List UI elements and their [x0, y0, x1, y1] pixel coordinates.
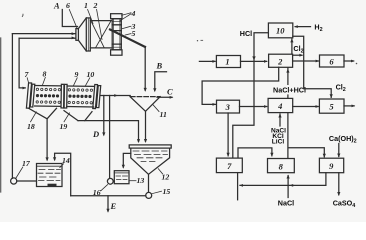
kiln discharge chute (item 5): [110, 30, 145, 47]
wire box2 up into box10: [291, 39, 293, 54]
svg-text:6: 6: [66, 1, 70, 10]
wire recycle riser left: [11, 34, 13, 179]
leader 18: [31, 112, 37, 122]
wire box4 bottom split to box8 and box9: [288, 113, 324, 159]
wire NaCl+HCl from box4 up into box2: [287, 68, 289, 98]
svg-text:9: 9: [329, 161, 334, 171]
svg-text:NaCl+HCl: NaCl+HCl: [273, 86, 306, 95]
box 6: [320, 55, 345, 67]
svg-text:NaCl: NaCl: [278, 198, 294, 207]
wire return into tank 14: [55, 153, 71, 196]
leader 17: [16, 167, 23, 178]
wire box3 down into box7: [227, 113, 229, 156]
svg-text:E: E: [110, 201, 117, 211]
funnel 18: [29, 108, 57, 119]
svg-text:10: 10: [276, 26, 285, 36]
wire funnel 11 down to tank 12: [145, 111, 147, 141]
svg-text:7: 7: [227, 161, 232, 171]
tank 12 body: [131, 148, 170, 174]
box 2: [269, 54, 293, 67]
leader 15: [152, 191, 162, 194]
box 10: [268, 23, 292, 38]
wire hot solids downcomer: [19, 38, 25, 88]
stray speck: [21, 14, 24, 16]
svg-text:16: 16: [93, 188, 101, 197]
wire into box 1: [199, 60, 215, 62]
wire box7 top over into box8: [238, 148, 272, 158]
wire out of box5: [344, 105, 354, 107]
wire box2 bottom loop to box3: [202, 67, 279, 104]
svg-text:2: 2: [277, 56, 283, 66]
svg-text:2: 2: [93, 1, 98, 10]
wire box1 to box2: [241, 60, 267, 62]
drum 8 shell: [35, 86, 61, 107]
drum 8 holes row bottom: [36, 101, 60, 104]
wire tank12 to pump15: [148, 174, 150, 192]
wire box7 bottom down: [237, 173, 239, 200]
leader 5: [125, 34, 131, 35]
tank 14: [37, 164, 63, 187]
svg-text:Cl2: Cl2: [336, 82, 346, 93]
kiln drum spiral: [91, 22, 110, 48]
svg-text:14: 14: [62, 156, 70, 165]
svg-text:LiCl: LiCl: [272, 139, 285, 146]
wire stream E branch: [107, 196, 109, 211]
stray speck: [356, 63, 358, 65]
tank 13: [114, 171, 129, 184]
kiln feed pipe lower: [19, 37, 76, 39]
kiln drum shell: [90, 21, 111, 48]
leader 12: [158, 169, 162, 174]
wire bottom line to pump 15: [71, 195, 146, 197]
svg-text:A: A: [53, 1, 60, 11]
wire dust line to pump 16: [109, 96, 111, 179]
svg-text:15: 15: [163, 187, 171, 196]
leaders 4: [120, 13, 131, 21]
stray speck: [197, 40, 198, 41]
drum 8 balls row middle: [36, 94, 59, 98]
tank 14 base: [48, 184, 57, 187]
svg-text:D: D: [92, 129, 99, 139]
svg-text:C: C: [167, 86, 173, 96]
leader 13: [130, 180, 137, 182]
tank 12 rim: [129, 145, 171, 148]
svg-text:5: 5: [329, 102, 334, 112]
wire drums discharge header: [101, 95, 130, 97]
svg-text:17: 17: [22, 159, 31, 168]
box 4: [268, 98, 293, 112]
drum 9/10 balls row middle: [68, 95, 91, 99]
funnel 11: [130, 97, 160, 112]
box 9: [319, 158, 343, 173]
kiln ring body (item 3): [112, 19, 121, 50]
svg-text:1: 1: [84, 1, 88, 10]
leader 10: [85, 78, 90, 86]
leader 1: [88, 10, 93, 24]
drum 9/10 holes row bottom: [68, 101, 92, 104]
svg-text:3: 3: [225, 102, 231, 112]
drum right flange: [93, 85, 101, 109]
svg-text:B: B: [156, 61, 163, 71]
leader 6: [69, 10, 77, 29]
cooling drums group: [26, 83, 100, 109]
label NaCl+HCl: [271, 85, 308, 94]
pump 16: [107, 178, 113, 184]
box 8: [268, 159, 295, 173]
box 7: [216, 158, 242, 173]
kiln front flange: [86, 18, 90, 51]
wire HCl bus: box10 left, down, left, down into box7: [233, 33, 269, 158]
wire box2 to box6: [293, 60, 319, 62]
wire box4 to box5: [293, 106, 319, 108]
wire stream C out: [157, 96, 172, 98]
pump 15: [146, 192, 152, 198]
box 5: [319, 99, 344, 113]
leader 14: [60, 164, 64, 168]
wire overflow tank12 to tank13: [123, 153, 131, 167]
svg-text:CaSO4: CaSO4: [333, 199, 356, 210]
svg-text:19: 19: [60, 122, 68, 131]
leader 8: [43, 77, 46, 85]
svg-text:10: 10: [87, 70, 95, 79]
leader 3: [122, 26, 131, 28]
drum 9/10 holes row top: [68, 89, 92, 92]
svg-text:4: 4: [277, 101, 282, 111]
leader 7: [27, 78, 29, 83]
wire return line box9 bottom to box7: [240, 173, 326, 186]
svg-text:5: 5: [132, 29, 136, 38]
wire box3 to box4: [240, 106, 267, 108]
wire NaCl up into box8: [287, 176, 289, 198]
svg-text:18: 18: [27, 122, 35, 131]
wire funnel 19 outlet to tank 12: [78, 121, 139, 142]
kiln cone: [78, 18, 86, 51]
wire stream D branch: [103, 96, 105, 135]
svg-text:H2: H2: [314, 23, 322, 34]
kiln feed pipe upper: [12, 33, 75, 35]
wire pump 17 to tank 14: [17, 180, 37, 182]
wire stream B into funnel 11: [155, 72, 167, 91]
pump 17: [11, 178, 17, 184]
leader 2: [97, 10, 102, 40]
drum left flange (item 7): [26, 83, 34, 108]
wire H2 into box10: [295, 26, 310, 28]
svg-text:1: 1: [225, 57, 229, 67]
svg-text:11: 11: [160, 110, 167, 119]
svg-text:9: 9: [75, 70, 79, 79]
kiln head flange: [76, 29, 79, 41]
svg-text:Ca(OH)2: Ca(OH)2: [329, 134, 357, 145]
svg-text:HCl: HCl: [240, 29, 252, 38]
leader 9: [74, 78, 78, 86]
drum 9/10 shell: [67, 86, 94, 107]
wire Cl2 out of box2: [293, 54, 302, 56]
wire kiln discharge down to funnel 11: [144, 47, 146, 91]
leader 16: [101, 185, 108, 191]
svg-text:8: 8: [279, 161, 284, 171]
drum middle flange: [61, 84, 64, 108]
wire salts up into box4: [279, 114, 281, 126]
drum 8 holes row top: [36, 88, 60, 91]
svg-text:6: 6: [329, 56, 334, 66]
wire Cl2: box10 right down to box5: [293, 36, 331, 97]
leader 19: [64, 113, 70, 122]
wire out of box6: [344, 60, 354, 62]
svg-text:8: 8: [43, 69, 47, 78]
box 1: [216, 56, 240, 68]
kiln ring caps (item 4): [111, 14, 122, 19]
svg-text:Cl2: Cl2: [293, 44, 303, 55]
wire Ca(OH)2 into box9: [338, 144, 340, 157]
wire pump16 to tank13: [113, 180, 114, 182]
svg-text:4: 4: [131, 9, 136, 18]
wire CaSO4 out of box9: [338, 173, 340, 195]
box 3: [217, 100, 240, 113]
wire funnel 18 down to tank 14: [46, 119, 48, 160]
svg-text:13: 13: [137, 176, 145, 185]
leader 11: [153, 105, 159, 112]
funnel 19: [64, 111, 92, 121]
wire stream A into kiln head: [62, 10, 77, 27]
